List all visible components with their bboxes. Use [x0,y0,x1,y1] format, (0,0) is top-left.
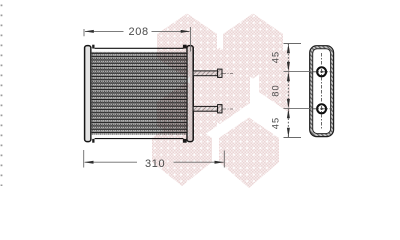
watermark hexagon cell dots (220,80) [190,48,250,125]
watermark hexagon cell texture (183,150) [152,118,212,187]
bracket hole 1 [312,53,333,90]
vertical chained dimensions 45/80/45: ticks and dotted line [284,44,312,138]
mounting bracket inner frame [313,49,331,134]
watermark hexagon cell (183,150) [152,118,212,187]
watermark hexagon cell dots (187,46) [157,14,217,79]
watermark hexagon cell (220,80) [190,48,250,125]
heater core right end plate [187,46,193,142]
dimension 208 extension ticks and line [84,27,191,52]
watermark hexagon cell texture (253,46) [223,14,283,79]
upper inlet pipe [193,69,233,77]
watermark hexagon cell texture (249,152) [219,118,279,189]
watermark hexagon cell dots (187,114) [157,82,217,147]
watermark hexagon cell (253,46) [223,14,283,79]
dimension 310 right arrowhead [215,161,225,164]
dimension 310 left arrowhead [84,161,94,164]
watermark hexagon cell texture (286,80) [259,48,319,113]
svg-text:45: 45 [271,117,281,130]
dimension 208 right arrowhead [181,30,191,33]
watermark hexagon cell texture (187,114) [157,82,217,147]
heater core fin matrix [92,52,187,135]
dimension 208 left arrowhead [84,30,94,33]
watermark hexagon cell dots (286,80) [259,48,319,113]
watermark hexagon cell (286,80) [259,48,319,113]
watermark hexagon cell (187,114) [157,82,217,147]
watermark hexagon cell dots (249,152) [219,118,279,189]
svg-text:208: 208 [129,26,149,38]
watermark hexagon cell texture (187,46) [157,14,217,79]
watermark hexagon cell dots (183,150) [152,118,212,187]
dimension 310 extension ticks and line [84,150,225,168]
left edge dotted line [1,5,3,187]
watermark hexagon cell dots (253,46) [223,14,283,79]
heater core bottom tank cap [92,135,187,143]
svg-text:80: 80 [271,84,281,97]
watermark hexagon cell texture (220,80) [190,48,250,125]
bracket hole 2 [312,90,333,129]
watermark band of checkered cells (multiplied over artwork) [152,14,319,189]
lower outlet pipe [193,105,233,113]
mounting bracket outer frame [310,46,334,137]
watermark hexagon cell (249,152) [219,118,279,189]
watermark hexagon cell (187,46) [157,14,217,79]
vertical chain dimension arrowheads [287,44,290,138]
svg-text:45: 45 [271,51,281,64]
heater core top tank cap [92,45,187,52]
svg-text:310: 310 [145,158,165,170]
heater core left end plate [85,46,91,142]
